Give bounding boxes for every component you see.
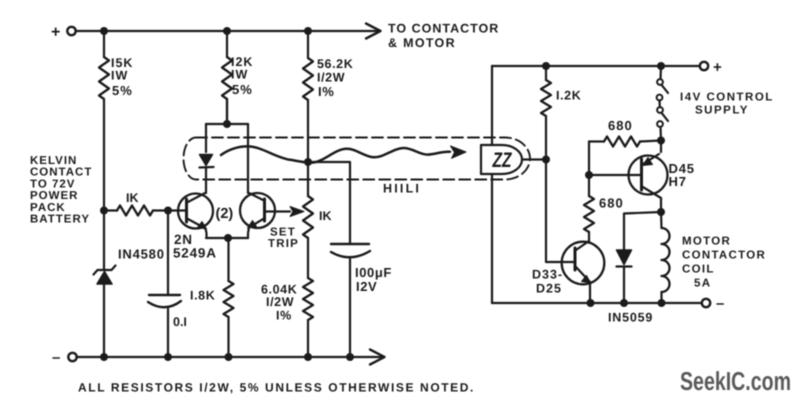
svg-text:I%: I% [276, 309, 292, 323]
svg-text:680: 680 [608, 118, 633, 133]
svg-text:5%: 5% [112, 83, 133, 98]
node plus terminal (+ battery input) [51, 24, 76, 41]
svg-text:ZZ: ZZ [492, 149, 513, 172]
svg-text:& MOTOR: & MOTOR [388, 36, 456, 50]
svg-text:5249A: 5249A [173, 246, 217, 261]
svg-text:I/2W: I/2W [266, 295, 294, 309]
node junction top rail at 12K [223, 27, 231, 35]
svg-text:TRIP: TRIP [268, 238, 299, 250]
svg-text:CONTACT: CONTACT [30, 167, 92, 179]
svg-text:5A: 5A [694, 278, 711, 290]
wire top rail [76, 30, 379, 32]
label SET TRIP [268, 227, 299, 251]
svg-text:–: – [52, 349, 60, 366]
resistor R8 1.2K [541, 66, 551, 160]
resistor R4 1K (horizontal) [104, 206, 168, 216]
label 56.2K 1/2W 1% [317, 57, 353, 99]
wire emitter common rung [206, 237, 248, 239]
svg-text:I%: I% [318, 84, 334, 99]
resistor R1 15K 1W 5% [99, 31, 109, 211]
wire collector rung above pair [206, 99, 248, 193]
resistor R9 680 (horizontal) [589, 137, 661, 176]
svg-text:ALL RESISTORS I/2W, 5% UNLESS: ALL RESISTORS I/2W, 5% UNLESS OTHERWISE … [78, 381, 475, 395]
node junction emitters common [224, 234, 232, 242]
svg-text:D33-: D33- [532, 268, 563, 282]
svg-text:SeekIC.com: SeekIC.com [680, 366, 791, 396]
node junction top rail at 56.2K [304, 27, 312, 35]
svg-text:PACK: PACK [30, 202, 66, 214]
label 15K 1W 5% [111, 56, 133, 98]
zener diode D1 IN4580 [94, 211, 116, 358]
wire right circuit bottom rail [492, 302, 702, 304]
transistor Q3 D45 H7 (PNP) [629, 141, 668, 213]
wire bottom rail [77, 356, 383, 358]
node junction D45 base node [585, 171, 593, 179]
svg-text:IW: IW [111, 69, 128, 83]
switch S1 contact chain [657, 66, 668, 140]
label KELVIN CONTACT TO 72V POWER PACK BATTERY [30, 155, 92, 226]
svg-text:HIILI: HIILI [383, 182, 421, 196]
resistor R3 56.2K 1/2W 1% [303, 31, 313, 162]
svg-text:SUPPLY: SUPPLY [695, 105, 749, 117]
transistor Q1 2N5249A (left of pair) [168, 193, 213, 239]
svg-text:IK: IK [126, 191, 139, 205]
wire top rail arrowhead [366, 24, 381, 39]
svg-text:56.2K: 56.2K [317, 57, 353, 71]
node junction at 12K bottom [223, 120, 231, 128]
wire tap to 100uF [308, 162, 350, 244]
node junction top rail at switch [657, 62, 665, 70]
svg-text:+: + [51, 24, 60, 41]
optocoupler dashed capsule [184, 138, 530, 180]
node junction ZZ output [542, 156, 550, 164]
svg-text:I4V CONTROL: I4V CONTROL [680, 92, 774, 104]
wire wavy arrowhead [451, 146, 467, 158]
wire D45 base [589, 174, 642, 176]
node junction D45 collector [657, 208, 665, 216]
node junction bottom rail dots right [587, 299, 666, 307]
svg-text:–: – [716, 295, 724, 312]
svg-text:IW: IW [231, 68, 248, 82]
svg-text:COIL: COIL [682, 264, 715, 276]
resistor R5 1.8K [224, 238, 234, 357]
label 14V CONTROL SUPPLY [680, 92, 774, 117]
svg-text:CONTACTOR: CONTACTOR [682, 250, 766, 262]
node minus terminal [52, 349, 77, 366]
node junction left column base node [100, 207, 108, 215]
svg-text:5%: 5% [232, 82, 253, 97]
diode D3 IN5059 [617, 250, 632, 303]
svg-text:D25: D25 [536, 282, 562, 296]
svg-text:KELVIN: KELVIN [30, 155, 77, 167]
svg-text:IN5059: IN5059 [608, 311, 653, 325]
node junction bottom rail dots [100, 353, 354, 361]
node junction top rail at 1.2K [542, 62, 550, 70]
label D33- D25 [532, 268, 563, 296]
node minus terminal 14V [702, 295, 725, 312]
resistor R10 680 (vertical) [584, 175, 594, 241]
wire collector to diode [624, 212, 661, 250]
label MOTOR CONTACTOR COIL 5A [682, 236, 766, 290]
inductor L1 motor contactor coil [661, 212, 670, 303]
svg-text:I.8K: I.8K [190, 289, 215, 303]
svg-text:SET: SET [270, 227, 296, 239]
capacitor C1 0.1 [148, 211, 181, 358]
label 12K 1W 5% [231, 55, 253, 97]
label 100uF 12V [355, 265, 392, 294]
svg-text:I/2W: I/2W [317, 71, 345, 85]
svg-text:TO CONTACTOR: TO CONTACTOR [388, 22, 499, 36]
wire bottom rail arrowhead [370, 350, 385, 365]
svg-text:IN4580: IN4580 [118, 247, 165, 262]
svg-text:POWER: POWER [30, 190, 78, 202]
resistor R7 6.04K 1/2W 1% [303, 278, 313, 357]
label TO CONTACTOR & MOTOR [388, 22, 499, 51]
node junction 56.2K / set-trip tap [304, 158, 312, 166]
svg-text:0.I: 0.I [173, 315, 187, 329]
svg-text:I2V: I2V [356, 279, 377, 294]
wire right circuit left vertical [491, 66, 493, 303]
svg-text:680: 680 [599, 196, 624, 211]
label 2N 5249A [173, 232, 217, 261]
detector U1 ZZ box [481, 145, 522, 174]
svg-text:TO 72V: TO 72V [30, 178, 75, 190]
svg-text:(2): (2) [216, 206, 234, 222]
node junction top rail at 15K [100, 27, 108, 35]
svg-text:MOTOR: MOTOR [682, 236, 731, 248]
svg-text:I.2K: I.2K [556, 89, 581, 103]
label 6.04K 1/2W 1% [261, 283, 297, 323]
LED D2 (optocoupler emitter) [200, 155, 214, 194]
svg-text:IK: IK [319, 209, 332, 223]
capacitor C2 100uF 12V [331, 244, 370, 357]
resistor R2 12K 1W 5% [222, 31, 232, 124]
transistor Q2 2N5249A (right of pair, mirrored) [240, 193, 290, 239]
wire ZZ output [522, 158, 546, 160]
svg-text:+: + [713, 59, 722, 76]
svg-text:I00μF: I00μF [355, 265, 392, 280]
node junction Q1 base node [164, 207, 172, 215]
wire wavy light arrow [221, 146, 450, 162]
svg-text:H7: H7 [669, 174, 687, 189]
wire right circuit top rail [492, 65, 700, 67]
svg-text:BATTERY: BATTERY [30, 214, 90, 226]
wire Q2 base set-trip arrow [290, 207, 304, 217]
label D45 H7 [669, 161, 695, 189]
node junction switch bottom / 680 [657, 137, 665, 145]
resistor R6 1K set trip [303, 162, 313, 278]
transistor Q4 D33 D25 (NPN) [562, 241, 605, 303]
node plus terminal 14V [700, 59, 722, 76]
wire 1.2K node down to D33 base [546, 160, 575, 263]
